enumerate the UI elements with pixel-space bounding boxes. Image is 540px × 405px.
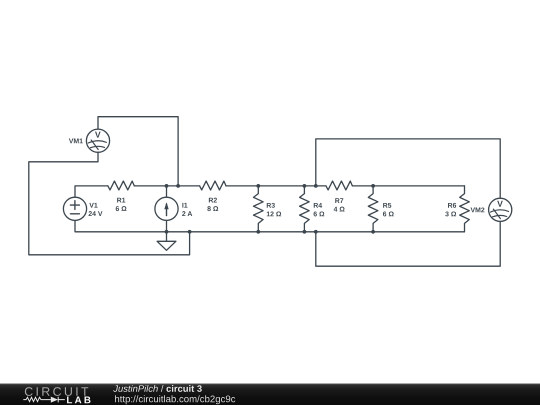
wire outer loop top: junction to VM2 top [316, 139, 500, 198]
node junction outer loop top [314, 184, 318, 188]
label R5 value [383, 203, 394, 216]
ground [157, 232, 176, 251]
resistor R3 [254, 186, 264, 232]
CircuitLab logo [23, 387, 90, 403]
resistor R7 [326, 181, 352, 190]
resistor R6 [460, 186, 470, 232]
label R1 value [116, 198, 127, 211]
wire VM1 top loop [98, 117, 178, 186]
label V1 value [89, 203, 103, 216]
node junction I1 bottom [165, 230, 169, 234]
label R7 value [334, 198, 345, 211]
label VM1 [69, 139, 83, 144]
label I1 value [182, 203, 192, 216]
wire top rail: R2 right to R7 left [226, 185, 326, 187]
node junction R4 bottom [303, 230, 307, 234]
footer credit text [113, 385, 235, 404]
node junction R5 top [371, 184, 375, 188]
label R2 value [207, 198, 218, 211]
voltmeter VM1 [86, 129, 109, 152]
voltmeter VM2 [489, 198, 512, 221]
current source I1 [155, 186, 178, 232]
label VM2 [471, 207, 485, 212]
node junction outer loop bottom [314, 230, 318, 234]
node junction R5 bottom [371, 230, 375, 234]
resistor R1 [108, 181, 134, 190]
wire top rail: V1 top stem to R1 left [75, 186, 108, 197]
wire top rail: R1 right to R2 left [134, 185, 199, 187]
resistor R5 [368, 186, 378, 232]
resistor R2 [200, 181, 226, 190]
node junction VM1 wire bottom rail [188, 230, 192, 234]
label R3 value [267, 203, 281, 216]
wire top rail: R7 right to R6 top corner [352, 185, 464, 187]
wire outer loop bottom: VM2 bottom to junction [316, 221, 500, 266]
wire bottom rail [75, 220, 465, 231]
node junction R3 bottom [256, 230, 260, 234]
wire VM1 bottom loop [29, 152, 190, 255]
node junction R4 top [303, 184, 307, 188]
label R4 value [314, 203, 325, 216]
node junction R3 top [256, 184, 260, 188]
resistor R4 [300, 186, 310, 232]
node junction VM1 wire top rail [176, 184, 180, 188]
voltage source V1 [63, 197, 86, 220]
node junction I1 top [165, 184, 169, 188]
label R6 value [445, 203, 456, 217]
